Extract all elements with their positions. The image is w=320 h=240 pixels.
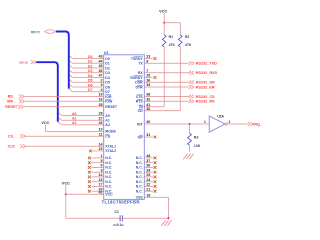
U1 pin 41 (RI) [139,103,150,109]
resistor R1 47K [162,35,166,47]
U1 pin 34 (N.C. right) no-connect [136,168,157,174]
svg-text:RTS: RTS [136,100,144,104]
svg-text:11: 11 [99,132,103,136]
svg-text:D2: D2 [88,64,93,68]
wire bus A[0:2] [36,62,58,121]
U1 pin 44 (D1) [98,60,109,66]
U1 pin 42 (VCC) [98,191,113,197]
svg-text:XTAL2: XTAL2 [105,149,116,153]
node D[0:7] off-page connector [31,30,56,35]
wire RS232_RXD [144,72,188,74]
svg-text:A[0:2]: A[0:2] [19,61,28,65]
wire RS232_DR [144,81,188,83]
U1 pin 14 (XTAL1) [98,142,116,148]
wire INT to inverter [144,123,209,125]
U1 pin 40 (CD) [138,107,151,113]
R2 value 47K [185,43,192,47]
svg-text:N.C.: N.C. [136,161,143,165]
wire net D1 [69,60,104,63]
svg-text:10K: 10K [194,144,201,148]
U2A pin 2 number [229,120,231,124]
U1 pin 8 (TX) [138,60,148,66]
node label D1 [88,60,93,64]
node RESET input port [5,105,23,109]
wire VCC rail to R2 [164,22,180,24]
U1 pin 26 (A2) [98,121,109,127]
svg-text:36: 36 [146,79,150,83]
svg-text:DTR: DTR [135,85,143,89]
U1 pin 17 (N.C. left) no-connect [88,183,112,189]
inverter U2A [209,116,227,132]
wire VCC to pin 42 [66,193,104,195]
svg-text:VCC: VCC [41,121,49,125]
svg-text:c=0.1u: c=0.1u [113,223,123,227]
wire RS232_TXD [144,62,188,64]
svg-text:D4: D4 [105,76,110,80]
svg-text:47K: 47K [169,43,176,47]
svg-text:37: 37 [146,159,150,163]
R2 reference label [185,35,190,39]
svg-text:15: 15 [98,147,102,151]
wire net A2 [58,122,104,125]
svg-text:46: 46 [98,69,102,73]
svg-text:DSR: DSR [135,81,143,85]
svg-text:D1: D1 [105,62,110,66]
node label A2 [72,121,77,125]
U1 pin 47 (D4) [98,74,109,80]
U1 pin 21 (N.C. right) no-connect [136,187,157,193]
svg-text:U2A: U2A [217,114,224,118]
svg-text:D7: D7 [105,90,110,94]
R1 reference label [169,35,174,39]
node label D2 [88,64,93,68]
svg-text:D[0:7]: D[0:7] [31,30,40,34]
wire bus D[0:7] [56,32,69,89]
svg-text:21: 21 [146,187,150,191]
U1 pin 6 (N.C. left) no-connect [88,164,112,170]
svg-text:CS_: CS_ [8,134,16,138]
svg-text:D7: D7 [88,88,93,92]
svg-text:12: 12 [98,173,102,177]
svg-text:25: 25 [146,173,150,177]
svg-text:47: 47 [98,74,102,78]
svg-text:CD: CD [138,109,144,113]
wire net D7 [69,89,104,92]
R1 value 47K [169,43,176,47]
node RS232_TXD port [189,61,217,65]
svg-text:N.C.: N.C. [136,171,143,175]
U1 pin 16 (IOW, active low) [98,98,113,104]
svg-text:RESET: RESET [5,105,18,109]
svg-text:N.C.: N.C. [136,185,143,189]
wire VCC down to C1 [66,194,120,218]
node label D0 [88,55,93,59]
node RD_ input port [8,95,24,99]
U1 pin 9 (N.C. left) no-connect [88,168,112,174]
svg-text:6: 6 [101,164,103,168]
svg-text:RS232_ER: RS232_ER [196,85,215,89]
svg-text:D0: D0 [105,57,110,61]
svg-text:32: 32 [146,98,150,102]
power VCC symbol (supply to pin 42) [62,181,70,185]
svg-text:29: 29 [146,74,150,78]
U1 pin 35 (RESET) [98,103,117,109]
U1 reference designator [104,51,109,55]
svg-text:RESET: RESET [105,105,118,109]
power VCC symbol (MODE pull-up) [41,121,49,125]
svg-text:1: 1 [204,120,206,124]
wire R1 to RI pin 41 [144,47,164,107]
U2A pin 1 number [204,120,206,124]
U1 pin 36 (N.C. right) no-connect [136,164,157,170]
U1 pin 15 (XTAL2) no-connect [89,147,116,153]
svg-text:D2: D2 [105,66,110,70]
svg-text:MODE: MODE [105,130,116,134]
node RS232_RS port [189,99,215,103]
node RS232_CS port [189,95,215,99]
U1 pin 24 (N.C. right) no-connect [136,178,157,184]
svg-text:N.C.: N.C. [105,156,112,160]
U1 pin 48 (N.C. right) no-connect [136,154,157,160]
U2A reference designator [217,114,224,118]
svg-text:28: 28 [98,112,102,116]
svg-text:D1: D1 [88,60,93,64]
wire net D6 [69,84,104,87]
wire VSS to ground [144,197,168,218]
U1 pin 19 (IOR, active low) [98,93,112,99]
svg-text:A0: A0 [72,112,77,116]
wire inverter output to IRQ_ [227,123,247,125]
capacitor C1 [120,215,122,221]
svg-text:D3: D3 [88,69,93,73]
U1 pin 18 (VSS) [136,194,151,200]
svg-text:RS232_CS: RS232_CS [196,95,215,99]
wire net D0 [69,55,104,58]
U1 pin 12 (N.C. left) no-connect [88,173,112,179]
svg-text:47K: 47K [185,43,192,47]
U1 pin 37 (N.C. right) no-connect [136,159,157,165]
U1 pin 4 (D7) [101,88,110,94]
R3 value 10K [194,144,201,148]
wire RS232_ER [144,86,188,88]
U1 pin 1 (N.C. left) no-connect [88,154,112,160]
svg-text:26: 26 [98,121,102,125]
svg-text:RS232_TXD: RS232_TXD [196,62,218,66]
U1 pin 43 (D0) [98,55,109,61]
U1 pin 2 (D5) [101,79,110,85]
wire CLK to XTAL1 [26,145,104,147]
svg-text:N.C.: N.C. [136,175,143,179]
svg-text:RS232_RS: RS232_RS [196,100,215,104]
svg-text:TL16C750EPFBR: TL16C750EPFBR [102,200,140,205]
U1 pin 30 (INT) [137,120,150,126]
U1 pin 38 (CTS) [136,93,151,99]
wire net A1 [58,117,104,120]
wire WR_ to IOW [24,100,103,102]
svg-text:U1: U1 [104,51,109,55]
U1 pin 3 (D6) [101,83,110,89]
svg-text:TXRDY: TXRDY [131,57,144,61]
svg-text:D4: D4 [88,74,93,78]
svg-text:5: 5 [101,159,103,163]
svg-text:48: 48 [146,154,150,158]
U1 pin 46 (D3) [98,69,109,75]
svg-text:RS232_RXD: RS232_RXD [196,71,218,75]
wire net A0 [58,112,104,115]
C1 value label c=0.1u [113,223,123,227]
svg-text:N.C.: N.C. [136,156,143,160]
junction INT node [189,123,191,125]
svg-text:A1: A1 [72,117,77,121]
svg-text:INT: INT [137,122,144,126]
svg-text:R2: R2 [185,35,190,39]
svg-text:D6: D6 [105,85,110,89]
wire net D5 [69,79,104,82]
svg-text:45: 45 [98,64,102,68]
node WR_ input port [7,99,24,103]
svg-text:22: 22 [146,183,150,187]
svg-text:IOR: IOR [105,95,112,99]
svg-text:A0: A0 [105,114,110,118]
svg-text:N.C.: N.C. [105,161,112,165]
wire net D3 [69,70,104,73]
svg-text:33: 33 [146,83,150,87]
svg-text:N.C.: N.C. [105,171,112,175]
U1 pin 23 (TXRDY no-connect) [131,55,157,61]
wire R2 to CD pin 40 [144,47,180,111]
svg-text:A1: A1 [105,119,110,123]
wire net D4 [69,74,104,77]
svg-text:N.C.: N.C. [105,180,112,184]
node label D7 [88,88,93,92]
svg-text:9: 9 [101,168,103,172]
svg-text:35: 35 [98,103,102,107]
junction VCC node [65,193,67,195]
svg-text:IRQ_: IRQ_ [253,123,263,127]
node RS232_DR port [189,80,215,84]
node A[0:2] port [19,60,36,64]
wire R1 top stub [163,23,165,35]
svg-text:27: 27 [98,117,102,121]
svg-text:18: 18 [146,194,150,198]
svg-text:D3: D3 [105,71,110,75]
svg-text:8: 8 [146,60,148,64]
junction VCC rail node [163,22,165,24]
U1 pin 29 (RXRDY no-connect) [130,74,156,80]
U1 pin 10 (MODE) [98,128,116,134]
U1 pin 27 (A1) [98,117,109,123]
svg-text:17: 17 [98,183,102,187]
svg-text:TX: TX [138,62,143,66]
U1 pin 20 (N.C. left) no-connect [88,187,112,193]
resistor R3 10K [188,133,192,145]
svg-text:XTAL1: XTAL1 [105,145,116,149]
wire R2 top stub [179,23,181,35]
svg-text:15: 15 [98,178,102,182]
svg-text:36: 36 [146,164,150,168]
svg-text:RD_: RD_ [8,95,16,99]
node CLK input port [8,144,26,148]
node IRQ_ output port [248,122,263,126]
U1 pin 32 (RTS) [136,98,151,104]
wire CS_ to CS [26,135,104,137]
wire C1 to ground rail [122,217,168,219]
svg-text:N.C.: N.C. [105,175,112,179]
svg-text:38: 38 [146,93,150,97]
junction ground node [167,217,169,219]
svg-text:30: 30 [146,120,150,124]
svg-text:A2: A2 [72,121,77,125]
node CS_ input port [8,134,25,138]
node label A1 [72,117,77,121]
U1 pin 7 (RX) [138,69,148,75]
svg-text:D0: D0 [88,55,93,59]
svg-text:R1: R1 [169,35,174,39]
U1 pin 33 (DTR) [135,83,150,89]
U1 pin 45 (D2) [98,64,109,70]
svg-text:VCC: VCC [159,9,167,13]
svg-text:IOW: IOW [105,100,113,104]
ground symbol (R3) [183,154,193,160]
svg-text:2: 2 [101,79,103,83]
U1 pin 11 (CS, active low) [99,132,111,138]
node label A0 [72,112,77,116]
wire VCC stub [65,185,67,194]
U1 pin 22 (N.C. right) no-connect [136,183,157,189]
node RS232_ER port [189,85,215,89]
node label D4 [88,74,93,78]
svg-text:23: 23 [146,55,150,59]
node label D3 [88,69,93,73]
wire RESET [23,106,103,108]
svg-text:VCC: VCC [105,193,113,197]
svg-text:C1: C1 [114,210,119,214]
svg-text:WR_: WR_ [7,100,16,104]
svg-text:RX: RX [138,71,144,75]
svg-text:CS: CS [105,135,111,139]
svg-text:43: 43 [98,55,102,59]
power VCC symbol (pull-up rail) [159,9,167,13]
svg-text:3: 3 [101,83,103,87]
U1 pin 5 (N.C. left) no-connect [88,159,112,165]
svg-text:N.C.: N.C. [105,185,112,189]
svg-text:19: 19 [98,93,102,97]
ground symbol (VSS/C1) [161,220,171,226]
wire R3 bottom stub [189,145,191,152]
resistor R2 47K [178,35,182,47]
R3 reference label [194,136,199,140]
svg-text:N.C.: N.C. [136,190,143,194]
U1 pin 25 (N.C. right) no-connect [136,173,157,179]
svg-text:D5: D5 [88,79,93,83]
node label D5 [88,79,93,83]
svg-text:16: 16 [98,98,102,102]
svg-text:2: 2 [229,120,231,124]
U1 pin 28 (A0) [98,112,109,118]
svg-text:1: 1 [101,154,103,158]
svg-text:A2: A2 [105,123,110,127]
wire VCC to MODE pin [45,125,103,132]
U1 pin 36 (DSR) [135,79,150,85]
svg-text:CTS: CTS [136,95,144,99]
svg-text:CLK: CLK [8,144,16,148]
U1 pin 31 (OP no-connect) [138,133,157,139]
svg-text:R3: R3 [194,136,199,140]
C1 reference label [114,210,119,214]
IC U1 TL16C750 UART body [104,55,145,200]
svg-text:40: 40 [146,107,150,111]
svg-text:RS232_DR: RS232_DR [196,81,215,85]
wire RD_ to IOR [24,96,103,98]
U1 part value TL16C750EPFBR [102,200,140,205]
svg-text:31: 31 [146,133,150,137]
node RS232_RXD port [189,71,218,75]
wire RS232_RS [144,100,188,102]
svg-text:D6: D6 [88,83,93,87]
svg-text:VCC: VCC [62,181,70,185]
wire VCC stub down [163,13,165,23]
svg-text:N.C.: N.C. [136,180,143,184]
svg-text:N.C.: N.C. [105,166,112,170]
svg-text:7: 7 [146,69,148,73]
svg-text:D5: D5 [105,81,110,85]
svg-text:OP: OP [138,135,144,139]
svg-text:RXRDY: RXRDY [130,76,143,80]
wire RS232_CS [144,96,188,98]
U1 pin 15 (N.C. left) no-connect [88,178,112,184]
svg-text:N.C.: N.C. [136,166,143,170]
wire R3 top stub [189,124,191,133]
svg-text:42: 42 [98,191,102,195]
node label D6 [88,83,93,87]
svg-text:10: 10 [98,128,102,132]
svg-text:VSS: VSS [136,196,144,200]
wire net D2 [69,65,104,68]
